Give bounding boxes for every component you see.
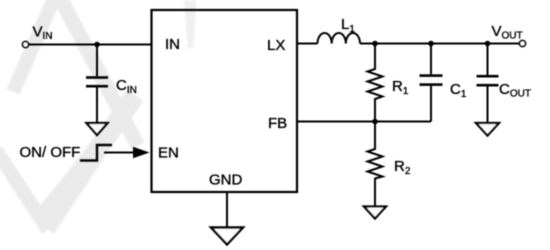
output terminal circle	[520, 41, 526, 47]
capacitor CIN	[96, 45, 98, 77]
svg-text:C1: C1	[450, 81, 467, 100]
node LX rail at R1	[372, 41, 378, 47]
ground under R2	[364, 207, 386, 219]
svg-text:IN: IN	[165, 36, 180, 53]
wire LX to L1	[297, 43, 318, 45]
wire GND pin	[226, 192, 228, 228]
svg-text:R1: R1	[392, 78, 409, 97]
svg-text:CIN: CIN	[116, 77, 137, 96]
IC U1	[152, 10, 298, 192]
wire L1 to VOUT	[360, 43, 520, 45]
svg-text:LX: LX	[267, 37, 285, 54]
resistor R2	[368, 122, 383, 207]
svg-text:ON/ OFF: ON/ OFF	[20, 144, 81, 161]
wire VIN to IN	[29, 44, 152, 46]
node at COUT	[485, 41, 491, 47]
wire FB	[297, 121, 431, 123]
svg-text:COUT: COUT	[499, 81, 531, 100]
svg-text:GND: GND	[209, 172, 243, 189]
resistor R1	[368, 44, 383, 122]
ground under IC	[211, 228, 243, 245]
node at CIN	[94, 42, 100, 48]
capacitor COUT	[487, 44, 489, 75]
svg-text:L1: L1	[341, 16, 355, 35]
capacitor C1	[430, 44, 432, 75]
node FB junction	[372, 119, 378, 125]
svg-text:FB: FB	[268, 115, 287, 132]
ON/OFF step symbol	[80, 145, 112, 161]
node at C1	[428, 41, 434, 47]
ground under COUT	[476, 123, 499, 136]
inductor L1	[318, 33, 361, 44]
watermark	[0, 0, 197, 230]
ground under CIN	[87, 123, 108, 135]
arrow to EN	[104, 152, 136, 154]
input terminal circle	[23, 42, 29, 48]
svg-text:VOUT: VOUT	[492, 23, 523, 42]
svg-text:R2: R2	[394, 158, 411, 177]
svg-text:EN: EN	[158, 145, 179, 162]
